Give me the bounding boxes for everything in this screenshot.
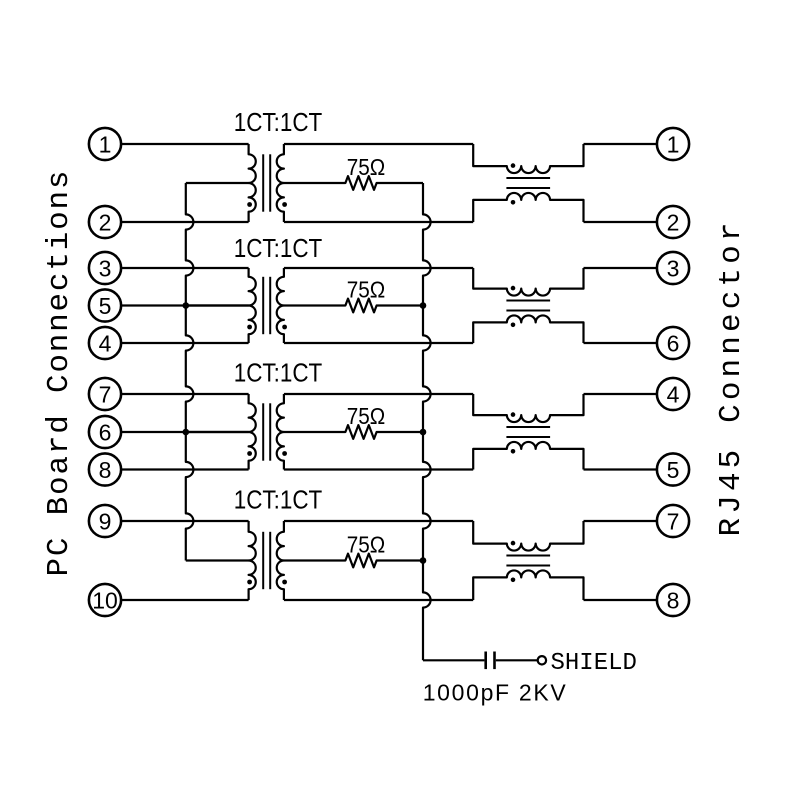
svg-text:8: 8 [667,587,680,613]
svg-text:3: 3 [99,255,112,281]
svg-text:1: 1 [99,131,112,157]
svg-text:10: 10 [92,587,118,613]
svg-text:5: 5 [667,457,680,483]
svg-text:SHIELD: SHIELD [551,650,637,677]
svg-text:6: 6 [667,330,680,356]
svg-text:1CT:1CT: 1CT:1CT [234,233,323,263]
svg-text:7: 7 [667,508,680,534]
svg-text:8: 8 [99,457,112,483]
svg-text:2: 2 [667,209,680,235]
svg-text:1CT:1CT: 1CT:1CT [234,358,323,388]
svg-text:1CT:1CT: 1CT:1CT [234,485,323,515]
svg-text:9: 9 [99,508,112,534]
svg-text:2: 2 [99,209,112,235]
svg-text:5: 5 [99,293,112,319]
svg-text:75Ω: 75Ω [347,277,386,303]
svg-text:1CT:1CT: 1CT:1CT [234,107,323,137]
svg-text:7: 7 [99,381,112,407]
svg-text:1000pF 2KV: 1000pF 2KV [423,679,567,705]
svg-text:4: 4 [667,381,680,407]
svg-text:75Ω: 75Ω [347,532,386,558]
svg-text:4: 4 [99,330,112,356]
svg-text:6: 6 [99,419,112,445]
svg-text:1: 1 [667,131,680,157]
svg-text:3: 3 [667,255,680,281]
svg-text:75Ω: 75Ω [347,403,386,429]
svg-text:75Ω: 75Ω [347,154,386,180]
